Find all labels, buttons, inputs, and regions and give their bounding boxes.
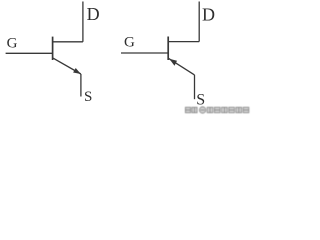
wire: gate lead Q2 bbox=[121, 52, 168, 54]
watermark: gray "toutiao" caption bottom right bbox=[185, 107, 248, 113]
svg-text:D: D bbox=[87, 4, 100, 24]
wire: drain horizontal segment Q2 bbox=[168, 41, 199, 43]
terminal label G (Q1) bbox=[7, 36, 18, 52]
Q1 gate bar bbox=[52, 37, 54, 60]
terminal label D (Q2) bbox=[202, 4, 215, 24]
terminal label S (Q1) bbox=[84, 89, 92, 105]
terminal label D (Q1) bbox=[87, 4, 100, 24]
svg-text:S: S bbox=[196, 92, 205, 109]
svg-text:D: D bbox=[202, 4, 215, 24]
Q1 source arrowhead (pointing outward) bbox=[73, 68, 81, 74]
terminal label G (Q2) bbox=[124, 35, 135, 51]
transistor Q1 (left JFET-style symbol) bbox=[6, 2, 83, 97]
wire: drain horizontal segment Q1 bbox=[53, 41, 83, 43]
Q1 source diagonal bbox=[53, 58, 81, 74]
wire: drain vertical lead Q2 to D bbox=[198, 2, 200, 42]
svg-text:G: G bbox=[124, 35, 135, 51]
wire: source vertical lead Q1 to S bbox=[80, 74, 82, 97]
wire: gate lead Q1 bbox=[6, 52, 53, 54]
Q2 source arrowhead (pointing inward to bar) bbox=[169, 59, 177, 66]
svg-text:G: G bbox=[7, 36, 18, 52]
Q2 gate bar bbox=[167, 37, 169, 61]
Q2 source diagonal bbox=[169, 58, 195, 75]
terminal label S (Q2) bbox=[196, 92, 205, 109]
svg-text:S: S bbox=[84, 89, 92, 105]
wire: drain vertical lead Q1 to D bbox=[82, 2, 84, 42]
wire: source vertical lead Q2 to S bbox=[194, 75, 196, 99]
transistor Q2 (right JFET-style symbol) bbox=[121, 2, 199, 100]
